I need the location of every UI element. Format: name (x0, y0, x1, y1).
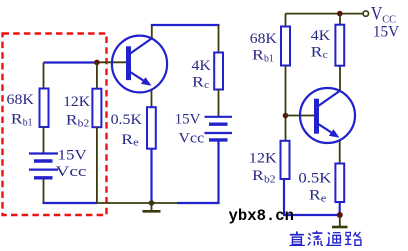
svg-text:12K: 12K (249, 150, 277, 166)
wire: top rail blue (151, 24, 220, 26)
battery V1 plate short 2 (34, 176, 53, 179)
terminal Vcc circle (363, 11, 368, 16)
svg-text:15V: 15V (58, 147, 87, 163)
transistor Q2 emitter arrowhead (329, 129, 340, 138)
wire: collector lead up to top rail (339, 14, 341, 91)
transistor Q2 base bar (314, 99, 319, 134)
resistor Re (0.5K) body (147, 107, 156, 149)
caption 直流通路 (drawn strokes) (289, 231, 361, 246)
wire: Rc top lead (218, 25, 220, 53)
wire: bottom rail blue left (43, 202, 98, 204)
svg-text:68K: 68K (250, 31, 277, 47)
svg-text:R: R (192, 74, 204, 90)
wire: base wire to transistor (286, 115, 316, 117)
svg-text:R: R (311, 44, 323, 60)
svg-text:0.5K: 0.5K (298, 170, 331, 186)
svg-text:15V: 15V (373, 24, 400, 41)
svg-text:0.5K: 0.5K (111, 112, 143, 128)
resistor Rb1 (68K) body (40, 89, 49, 128)
svg-text:ybx8.cn: ybx8.cn (229, 207, 295, 225)
svg-text:Vcc: Vcc (56, 164, 87, 180)
svg-text:R: R (309, 188, 321, 204)
battery V2 plate long 2 (205, 132, 233, 134)
ground symbol right (339, 215, 341, 226)
wire: bottom rail dark middle (97, 202, 178, 204)
resistor Rc (4K) body (214, 53, 223, 90)
svg-text:68K: 68K (7, 92, 35, 108)
wire: emitter lead down to Re (339, 141, 341, 164)
svg-text:15V: 15V (175, 111, 201, 127)
char 通 (327, 232, 341, 245)
wire: collector lead up (151, 25, 153, 39)
node junction dot top (337, 11, 343, 17)
transistor Q2 circle (300, 88, 355, 143)
transistor Q1 circle (112, 36, 167, 93)
wire: Rb1 bottom through base node down to Rb2 (285, 66, 287, 142)
ground symbol left (151, 203, 153, 211)
svg-text:b2: b2 (78, 119, 90, 130)
wire: lead corner down to Rb1 (43, 63, 45, 90)
transistor Q1 emitter diagonal (130, 72, 149, 84)
wire: top node horizontal (Rb1 top to base node) (44, 61, 98, 63)
svg-text:c: c (204, 80, 209, 91)
resistor Rb1 right (68K) body (281, 27, 290, 66)
bottom junction dot right (337, 212, 343, 218)
battery V1 (15V Vcc) plate long (29, 152, 58, 154)
wire: Rc bottom to battery V2 (218, 90, 220, 117)
svg-text:4K: 4K (192, 58, 212, 74)
battery V2 plate short (209, 122, 228, 125)
svg-text:4K: 4K (311, 28, 331, 44)
svg-text:e: e (321, 193, 327, 204)
thevenin dashed box (3, 34, 107, 216)
resistor Rb2 (12K) body (92, 89, 101, 128)
svg-text:12K: 12K (63, 94, 90, 110)
wire: emitter lead to Re (151, 90, 153, 108)
ground junction dot (149, 200, 155, 206)
svg-text:e: e (133, 138, 139, 149)
svg-text:V: V (371, 4, 383, 25)
node base junction dot right (283, 113, 289, 119)
battery V2 plate short 2 (209, 138, 228, 141)
resistor Re right (0.5K) body (335, 164, 344, 203)
battery V1 plate short (34, 159, 53, 162)
wire: battery bottom lead (43, 180, 45, 204)
transistor Q1 emitter arrowhead (141, 77, 152, 86)
battery V1 plate long 2 (29, 169, 58, 171)
resistor Rb2 right (12K) body (281, 141, 290, 179)
transistor Q2 collector diagonal (318, 91, 341, 107)
svg-text:b2: b2 (264, 174, 276, 185)
wire: top rail dark (286, 13, 363, 15)
wire: Rb1 bottom to battery (43, 127, 45, 153)
transistor Q2 emitter diagonal (318, 124, 337, 136)
char 直 (289, 231, 305, 245)
wire: base node down to Rb2 (96, 63, 98, 90)
wire: Re bottom to ground junction (150, 149, 152, 203)
wire: battery V2 down and left to ground rail (177, 142, 219, 204)
wire: bottom rail right (283, 214, 340, 216)
transistor Q1 collector diagonal (130, 38, 153, 54)
svg-text:R: R (66, 113, 78, 129)
svg-text:R: R (121, 132, 133, 148)
transistor Q1 base bar (126, 46, 131, 80)
wire: base node to transistor base (dark) (97, 61, 127, 63)
battery V2 (15V Vcc) plate long (205, 116, 233, 118)
svg-text:b1: b1 (23, 117, 33, 128)
svg-text:R: R (252, 168, 264, 184)
svg-text:Vcc: Vcc (179, 130, 205, 146)
node B junction dot (94, 60, 100, 66)
char 路 (345, 232, 361, 246)
wire: Rb1 top lead (285, 14, 287, 27)
svg-text:c: c (323, 50, 328, 61)
char 流 (308, 231, 323, 246)
wire: Rb2 bottom to ground rail (96, 127, 98, 203)
svg-text:R: R (252, 47, 264, 63)
wire: Re bottom to bottom junction (339, 202, 341, 215)
svg-text:R: R (11, 111, 23, 127)
svg-text:b1: b1 (264, 53, 274, 64)
wire: Rb2 bottom to bottom rail (283, 179, 285, 215)
resistor Rc right (4K) body (335, 25, 344, 66)
